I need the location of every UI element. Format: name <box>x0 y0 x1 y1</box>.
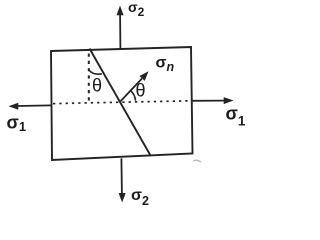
svg-text:σ2: σ2 <box>131 187 149 208</box>
svg-text:σ1: σ1 <box>7 113 27 135</box>
arrow sigma1 left <box>9 103 52 110</box>
vertical reference dotted line <box>88 54 90 102</box>
scan smudge near bottom-right corner <box>193 160 201 162</box>
arrow sigma2 bottom <box>119 158 126 202</box>
svg-text:σn: σn <box>156 55 175 75</box>
svg-text:θ: θ <box>92 76 102 96</box>
arrow sigma2 top <box>117 6 124 49</box>
stress element box <box>51 47 193 160</box>
angle arc theta right <box>131 91 136 101</box>
angle arc theta left <box>89 70 102 74</box>
svg-text:σ1: σ1 <box>226 104 246 129</box>
inclined plane line <box>90 49 151 156</box>
arrow sigma1 right <box>191 97 234 104</box>
horizontal center dashed line <box>53 101 191 104</box>
arrow sigma_n <box>121 71 149 101</box>
svg-text:σ2: σ2 <box>128 0 145 19</box>
